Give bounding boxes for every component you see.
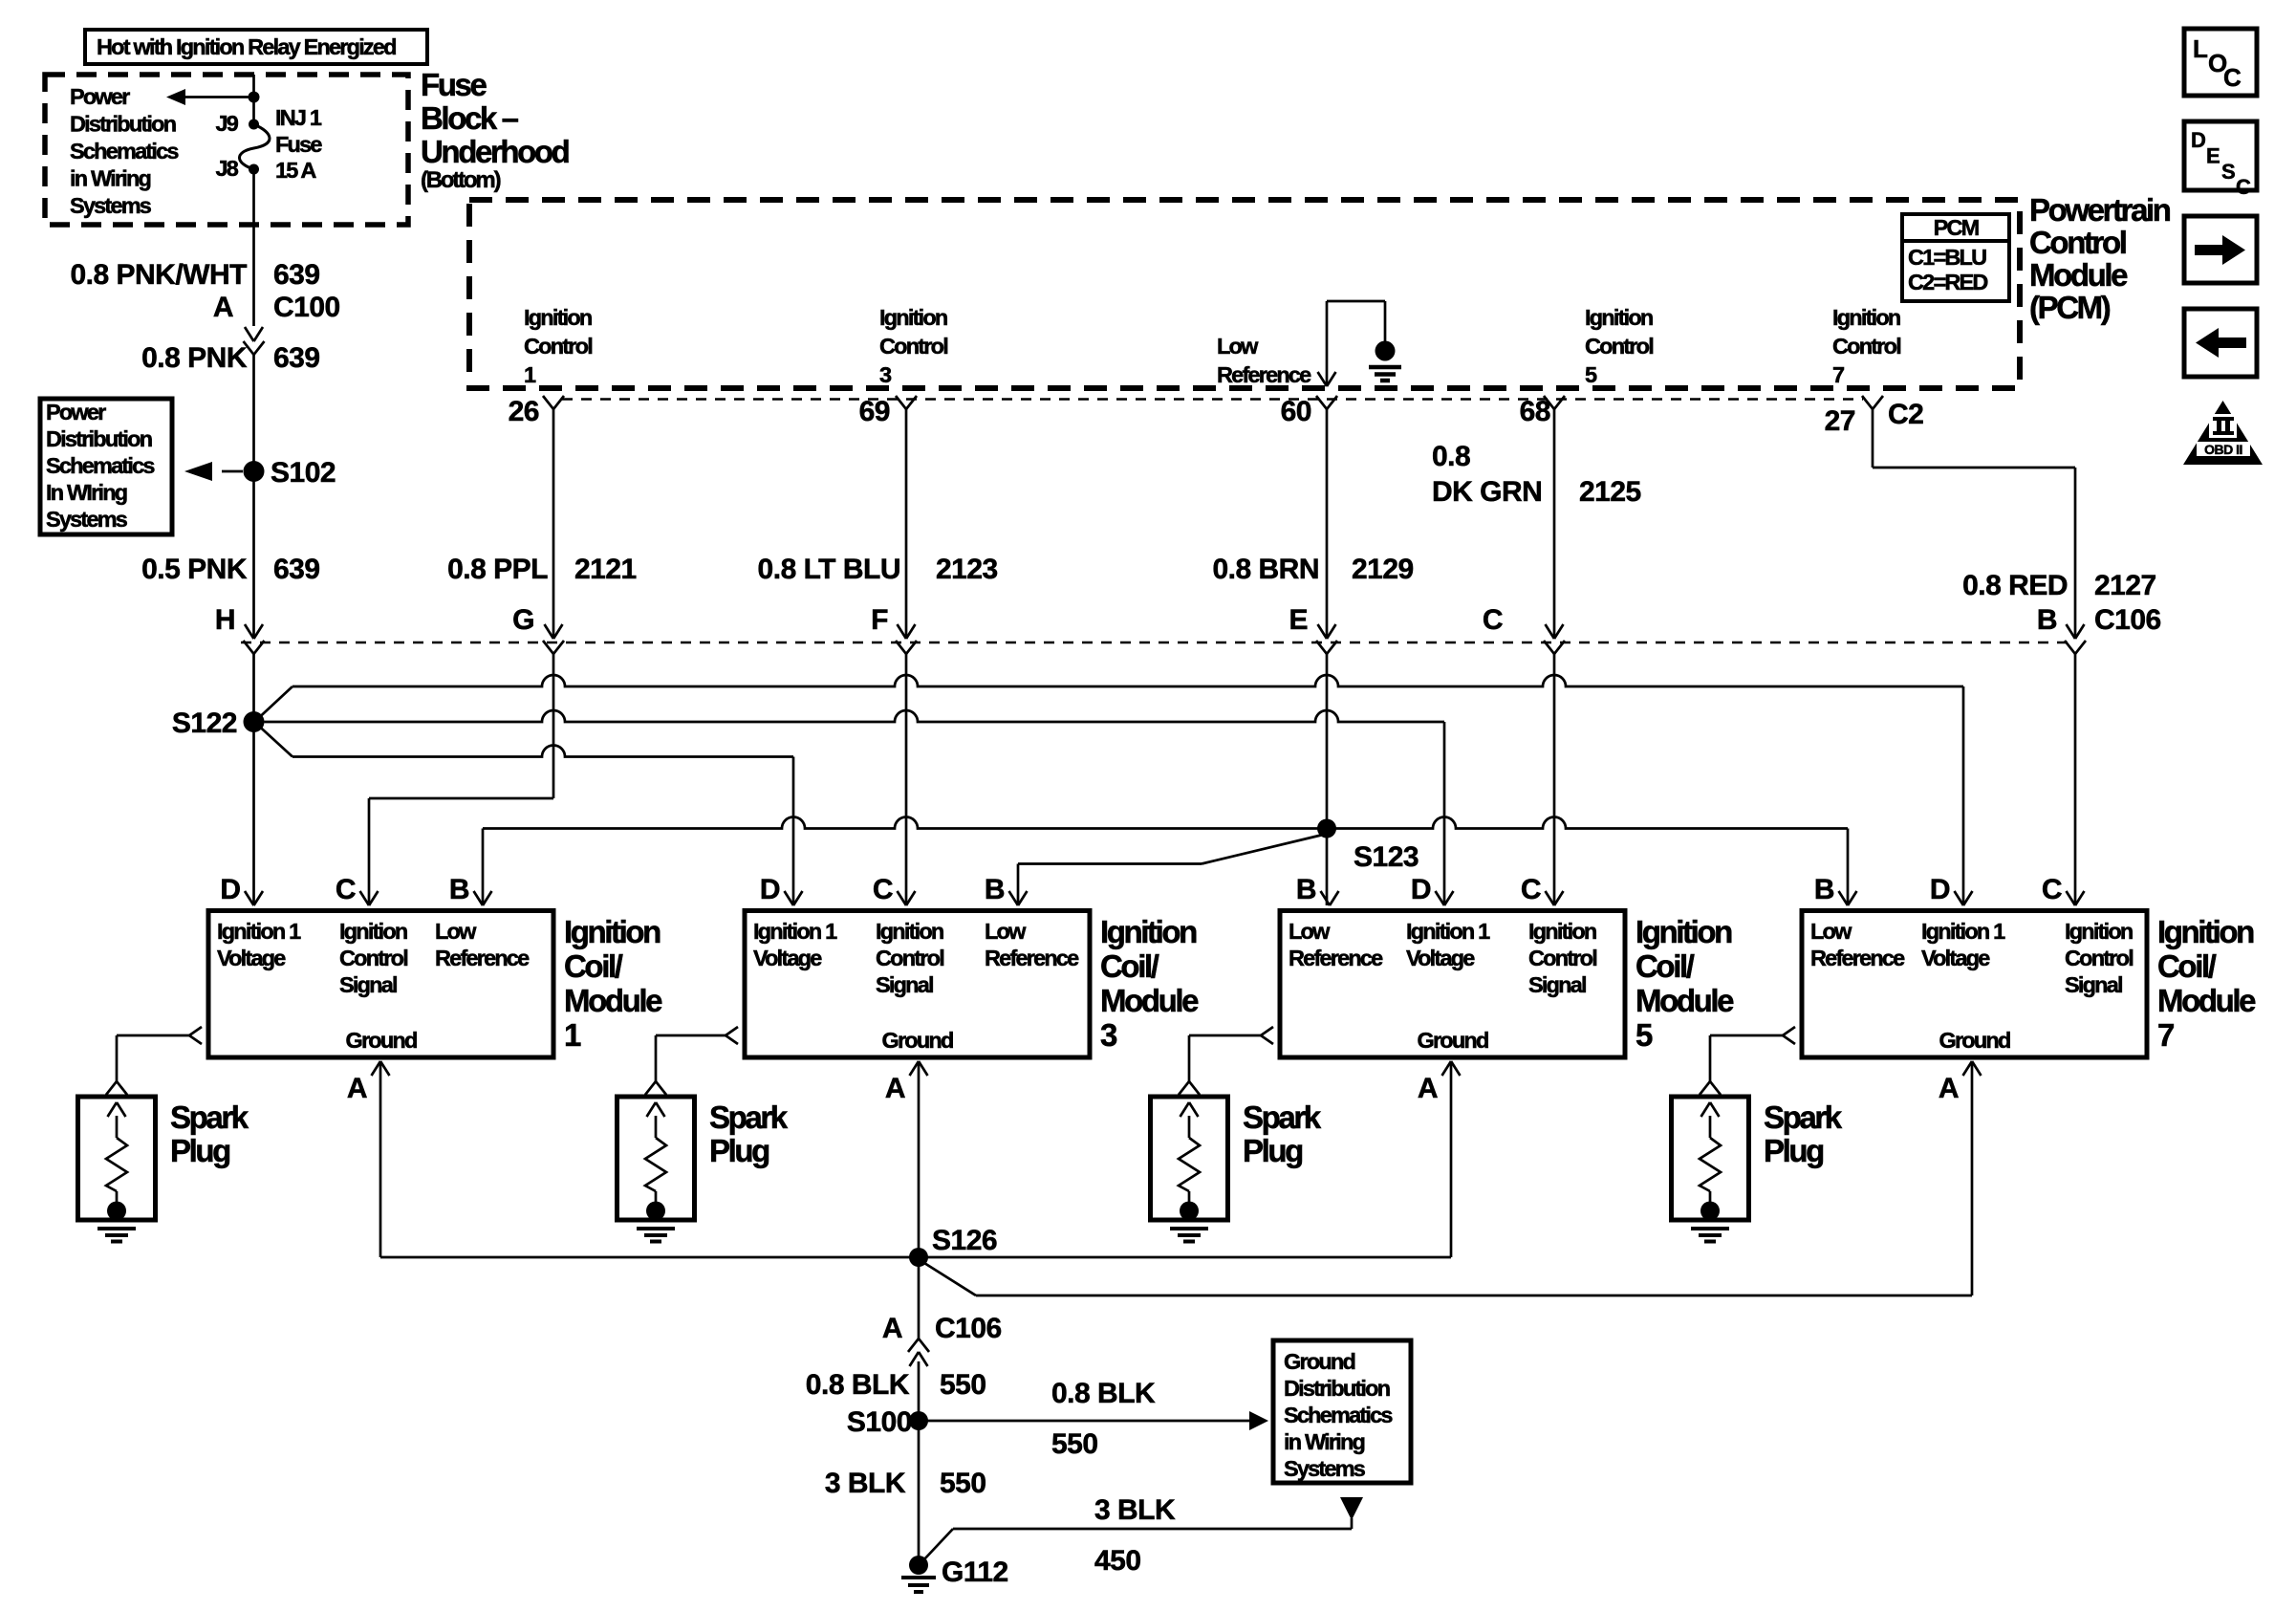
ignition coil/module 5 — [1280, 911, 1625, 1058]
svg-text:(Bottom): (Bottom) — [421, 167, 501, 193]
connector C2 line — [562, 398, 1863, 401]
svg-text:7: 7 — [2157, 1017, 2174, 1053]
ground G112 — [909, 1556, 928, 1575]
wire: 0.5 PNK 639 to connector C106 pin H — [252, 471, 255, 639]
svg-text:C100: C100 — [273, 292, 340, 323]
svg-text:D: D — [1411, 874, 1431, 905]
svg-text:639: 639 — [273, 554, 320, 585]
svg-text:3 BLK: 3 BLK — [825, 1468, 906, 1499]
wire: S126 branch to module 7 — [924, 1263, 976, 1295]
svg-text:Voltage: Voltage — [217, 946, 286, 970]
wire: S126 to connector C106 pin A — [918, 1257, 921, 1339]
svg-text:2127: 2127 — [2094, 570, 2156, 601]
svg-text:7: 7 — [1832, 362, 1845, 387]
svg-text:A: A — [1418, 1073, 1438, 1104]
fuse F INJ 1 15 A — [239, 124, 270, 169]
wire: S122 top branch to module 7 pin D — [259, 686, 293, 718]
svg-text:Distribution: Distribution — [46, 426, 152, 451]
svg-text:Systems: Systems — [46, 507, 128, 532]
svg-text:C: C — [1483, 604, 1503, 636]
svg-text:G: G — [512, 604, 534, 636]
svg-text:Ground: Ground — [1417, 1028, 1487, 1053]
svg-text:Ignition 1: Ignition 1 — [1406, 919, 1490, 944]
svg-text:C: C — [336, 874, 356, 905]
svg-text:Control: Control — [1832, 334, 1900, 359]
svg-text:69: 69 — [859, 396, 890, 427]
svg-text:Control: Control — [1528, 946, 1596, 970]
svg-text:A: A — [213, 292, 233, 323]
svg-text:in Wiring: in Wiring — [70, 166, 151, 191]
svg-text:Ignition 1: Ignition 1 — [217, 919, 301, 944]
svg-text:Ground: Ground — [345, 1028, 416, 1053]
ignition coil/module 1 — [208, 911, 553, 1058]
svg-text:in Wiring: in Wiring — [1284, 1429, 1365, 1454]
svg-text:5: 5 — [1635, 1017, 1653, 1053]
svg-text:Ignition: Ignition — [564, 914, 661, 949]
splice S122 — [244, 711, 265, 732]
wire: ground distribution arrow to 3 BLK 450 — [1340, 1497, 1363, 1520]
svg-text:Ignition: Ignition — [1832, 305, 1900, 330]
svg-text:B: B — [985, 874, 1005, 905]
svg-text:Module: Module — [1635, 983, 1734, 1018]
wire: ignition control 5 from C106 C to module 5 pin C — [1553, 654, 1556, 905]
svg-text:3: 3 — [879, 362, 892, 387]
svg-text:Coil/: Coil/ — [1100, 948, 1159, 984]
svg-text:B: B — [2037, 604, 2057, 636]
svg-text:S126: S126 — [932, 1225, 997, 1256]
svg-text:S123: S123 — [1354, 841, 1419, 873]
svg-text:0.8: 0.8 — [1432, 441, 1470, 472]
svg-text:Fuse: Fuse — [275, 132, 322, 157]
svg-text:Power: Power — [46, 400, 106, 425]
svg-text:2123: 2123 — [936, 554, 998, 585]
splice S123 — [1317, 819, 1336, 838]
svg-text:E: E — [2206, 144, 2220, 168]
wire: ignition control 7, 0.8 RED 2127, pin 27 jog to C106 B — [1872, 409, 1874, 468]
svg-text:Plug: Plug — [1243, 1133, 1302, 1168]
PCM dashed box — [469, 200, 2020, 388]
svg-text:Systems: Systems — [70, 193, 152, 218]
svg-text:Systems: Systems — [1284, 1456, 1366, 1481]
wire: arrow to power distribution schematics — [185, 96, 254, 98]
svg-text:Hot with Ignition Relay Energi: Hot with Ignition Relay Energized — [97, 34, 396, 59]
svg-text:Voltage: Voltage — [1921, 946, 1990, 970]
svg-text:Module: Module — [2029, 257, 2128, 293]
svg-text:Reference: Reference — [435, 946, 530, 970]
wire: 0.8 PNK 639 to S102 — [252, 355, 255, 471]
label box: Hot with Ignition Relay Energized — [85, 30, 427, 64]
svg-text:Plug: Plug — [709, 1133, 769, 1168]
svg-text:Signal: Signal — [339, 972, 397, 997]
svg-text:Voltage: Voltage — [1406, 946, 1475, 970]
svg-text:Coil/: Coil/ — [1635, 948, 1695, 984]
splice S126 — [909, 1248, 928, 1267]
svg-text:C106: C106 — [2094, 604, 2161, 636]
svg-text:Control: Control — [2029, 225, 2126, 260]
svg-text:0.8 BRN: 0.8 BRN — [1212, 554, 1319, 585]
svg-text:Low: Low — [1217, 334, 1259, 359]
svg-text:550: 550 — [1051, 1428, 1098, 1460]
wire: low reference, 0.8 BRN 2129, pin 60 to C106 E — [1326, 409, 1329, 639]
svg-text:Module: Module — [1100, 983, 1199, 1018]
svg-text:Reference: Reference — [1289, 946, 1383, 970]
spark plug 5 ground — [1180, 1202, 1199, 1221]
svg-text:550: 550 — [940, 1369, 986, 1401]
svg-text:Powertrain: Powertrain — [2029, 192, 2171, 228]
svg-text:Low: Low — [985, 919, 1027, 944]
svg-text:1: 1 — [564, 1017, 581, 1053]
svg-text:Schematics: Schematics — [70, 139, 179, 163]
svg-text:Power: Power — [70, 84, 130, 109]
svg-text:Ignition: Ignition — [1585, 305, 1653, 330]
svg-text:Coil/: Coil/ — [564, 948, 623, 984]
svg-text:0.8 PPL: 0.8 PPL — [447, 554, 548, 585]
svg-text:Underhood: Underhood — [421, 134, 569, 169]
wire: ignition control 7 from C106 B to module 7 pin C — [2074, 654, 2077, 905]
svg-text:C: C — [2042, 874, 2062, 905]
svg-text:639: 639 — [273, 342, 320, 374]
svg-text:2125: 2125 — [1579, 476, 1641, 508]
svg-text:Module: Module — [2157, 983, 2256, 1018]
wire: ignition control 1, 0.8 PPL 2121, pin 26 to C106 G — [552, 409, 555, 639]
splice S102 — [244, 461, 265, 482]
svg-text:S100: S100 — [847, 1406, 912, 1438]
spark plug 3 ground — [646, 1202, 665, 1221]
wire: S122 middle branch to module 5 pin D — [265, 710, 1445, 722]
node: power distribution tap junction — [249, 92, 260, 103]
wire: ignition control 3 from C106 F to module 3 pin C — [905, 654, 908, 905]
wire: module 5 to spark plug — [1261, 1027, 1273, 1044]
svg-text:B: B — [449, 874, 469, 905]
wire: S122 bottom branch to module 3 pin D — [259, 726, 293, 757]
svg-text:A: A — [882, 1313, 902, 1344]
svg-text:Distribution: Distribution — [1284, 1376, 1390, 1401]
svg-text:DK GRN: DK GRN — [1432, 476, 1542, 508]
svg-text:C: C — [873, 874, 893, 905]
svg-text:0.8 BLK: 0.8 BLK — [806, 1369, 910, 1401]
svg-text:Plug: Plug — [1764, 1133, 1823, 1168]
svg-text:Block –: Block – — [421, 100, 519, 136]
svg-text:3 BLK: 3 BLK — [1094, 1494, 1176, 1526]
svg-text:2121: 2121 — [574, 554, 637, 585]
wire: 3 BLK 550 S100 to G112 — [918, 1421, 921, 1565]
icon: arrow left — [2184, 309, 2257, 377]
svg-text:Voltage: Voltage — [753, 946, 822, 970]
svg-text:0.8 RED: 0.8 RED — [1962, 570, 2068, 601]
svg-text:Reference: Reference — [985, 946, 1079, 970]
wire: 0.8 BLK 550 to S100 — [918, 1361, 921, 1421]
svg-text:5: 5 — [1585, 362, 1597, 387]
svg-text:Ignition: Ignition — [2065, 919, 2133, 944]
svg-text:Control: Control — [524, 334, 592, 359]
spark plug 5 — [1151, 1097, 1228, 1220]
spark plug 1 — [78, 1097, 156, 1220]
icon: OBD II triangle — [2183, 401, 2263, 465]
svg-text:Ground: Ground — [1939, 1028, 2009, 1053]
svg-text:F: F — [871, 604, 888, 636]
svg-text:Ground: Ground — [881, 1028, 952, 1053]
spark plug 7 — [1672, 1097, 1749, 1220]
svg-text:60: 60 — [1281, 396, 1311, 427]
icon: arrow right — [2184, 216, 2257, 283]
svg-text:G112: G112 — [942, 1557, 1008, 1588]
svg-text:D: D — [2191, 128, 2205, 152]
wire: arrow from S102 to power distribution note — [222, 470, 243, 473]
svg-text:550: 550 — [940, 1468, 986, 1499]
svg-text:0.8 LT BLU: 0.8 LT BLU — [758, 554, 900, 585]
wire: ignition control 3, 0.8 LT BLU 2123, pin 69 to C106 F — [905, 409, 908, 639]
svg-text:Plug: Plug — [170, 1133, 229, 1168]
svg-text:(PCM): (PCM) — [2029, 290, 2111, 325]
svg-text:C: C — [1521, 874, 1541, 905]
spark plug 1 ground — [107, 1202, 126, 1221]
ground: PCM internal — [1375, 341, 1396, 361]
svg-text:Ignition 1: Ignition 1 — [1921, 919, 2005, 944]
svg-text:Ignition: Ignition — [1635, 914, 1732, 949]
svg-text:Ignition: Ignition — [1528, 919, 1596, 944]
svg-text:Control: Control — [339, 946, 407, 970]
svg-text:3: 3 — [1100, 1017, 1117, 1053]
svg-text:S: S — [2221, 160, 2235, 184]
icon: DESC — [2184, 121, 2257, 190]
svg-text:0.8 PNK/WHT: 0.8 PNK/WHT — [70, 259, 247, 291]
svg-text:C: C — [2223, 63, 2242, 92]
svg-text:0.8 BLK: 0.8 BLK — [1051, 1378, 1156, 1409]
wire: S126 ground bus — [380, 1256, 1451, 1259]
svg-text:D: D — [1930, 874, 1950, 905]
svg-text:Ignition: Ignition — [879, 305, 947, 330]
svg-text:Module: Module — [564, 983, 662, 1018]
svg-text:A: A — [1939, 1073, 1959, 1104]
wire: PCM internal low reference to ground — [1327, 300, 1385, 303]
fuse block underhood dashed box — [45, 75, 408, 225]
svg-text:450: 450 — [1094, 1545, 1141, 1577]
svg-text:J8: J8 — [215, 156, 238, 181]
svg-text:Coil/: Coil/ — [2157, 948, 2217, 984]
svg-text:1: 1 — [524, 362, 536, 387]
wire: ignition control 5, 0.8 DK GRN 2125, pin 68 to C106 C — [1553, 409, 1556, 639]
svg-text:Distribution: Distribution — [70, 112, 176, 137]
svg-text:Spark: Spark — [1243, 1099, 1322, 1135]
wire: low reference bus module1 B to module7 B — [482, 829, 485, 906]
wire: low reference arrow into pin 60 — [1326, 301, 1329, 386]
icon: LOC — [2184, 29, 2257, 96]
note box: Ground Distribution Schematics in Wiring Systems — [1273, 1340, 1411, 1483]
svg-text:Signal: Signal — [2065, 972, 2122, 997]
spark plug 7 ground — [1700, 1202, 1720, 1221]
svg-text:Spark: Spark — [1764, 1099, 1843, 1135]
svg-text:Control: Control — [876, 946, 943, 970]
wire: module 3 to spark plug — [726, 1027, 738, 1044]
svg-text:Ignition: Ignition — [2157, 914, 2254, 949]
svg-text:Reference: Reference — [1217, 362, 1311, 387]
svg-text:68: 68 — [1520, 396, 1550, 427]
svg-text:Schematics: Schematics — [1284, 1403, 1393, 1427]
svg-text:Low: Low — [435, 919, 477, 944]
svg-text:Ignition 1: Ignition 1 — [753, 919, 837, 944]
connector C106 dashed line — [241, 642, 2070, 644]
svg-text:OBD II: OBD II — [2204, 442, 2242, 457]
note box: Power Distribution Schematics In Wiring Systems — [40, 399, 172, 534]
svg-text:S122: S122 — [172, 708, 237, 739]
svg-text:D: D — [220, 874, 240, 905]
svg-text:0.5 PNK: 0.5 PNK — [141, 554, 248, 585]
svg-text:Ignition: Ignition — [339, 919, 407, 944]
svg-text:S102: S102 — [271, 457, 336, 489]
wire: fuse output 0.8 PNK/WHT 639 — [252, 169, 255, 326]
svg-text:Fuse: Fuse — [421, 67, 487, 102]
wire: S100 0.8 BLK 550 to ground distribution — [919, 1420, 1249, 1423]
wire: pnk feed C106 H down to module 1 pin D — [252, 654, 255, 905]
wire: ignition feed into fuse block — [252, 75, 255, 124]
svg-text:A: A — [885, 1073, 905, 1104]
svg-text:Signal: Signal — [876, 972, 933, 997]
splice S100 — [909, 1411, 928, 1430]
svg-text:Reference: Reference — [1810, 946, 1905, 970]
svg-text:0.8 PNK: 0.8 PNK — [141, 342, 248, 374]
svg-text:C: C — [2236, 175, 2251, 199]
svg-text:B: B — [1814, 874, 1834, 905]
svg-text:Low: Low — [1289, 919, 1331, 944]
svg-text:L: L — [2193, 34, 2208, 63]
spark plug 3 — [617, 1097, 695, 1220]
svg-text:Ignition: Ignition — [876, 919, 943, 944]
wire: S123 branch to module 3 pin B — [1202, 836, 1321, 864]
wire: module 1 to spark plug — [189, 1027, 202, 1044]
ignition coil/module 7 — [1802, 911, 2147, 1058]
svg-text:Ground: Ground — [1284, 1349, 1354, 1374]
svg-text:PCM: PCM — [1934, 215, 1979, 240]
svg-text:INJ 1: INJ 1 — [275, 105, 322, 130]
wire: low reference from C106 E to S123 and module 5 pin B — [1326, 654, 1329, 905]
wire: ignition control 1 from C106 G to module 1 pin C — [552, 654, 555, 798]
svg-text:Spark: Spark — [170, 1099, 249, 1135]
svg-text:C2: C2 — [1888, 399, 1923, 430]
svg-text:Control: Control — [2065, 946, 2133, 970]
svg-text:C2=RED: C2=RED — [1908, 270, 1987, 294]
svg-text:Low: Low — [1810, 919, 1852, 944]
PCM id box: PCM C1=BLU C2=RED — [1902, 214, 2009, 301]
svg-text:639: 639 — [273, 259, 320, 291]
svg-text:Ignition: Ignition — [524, 305, 592, 330]
svg-text:A: A — [347, 1073, 367, 1104]
svg-text:J9: J9 — [215, 111, 238, 136]
svg-text:H: H — [215, 604, 235, 636]
svg-text:C1=BLU: C1=BLU — [1908, 245, 1986, 270]
ignition coil/module 3 — [745, 911, 1090, 1058]
wire: 3 BLK 450 from G112 — [923, 1529, 953, 1560]
node J8 — [249, 164, 259, 175]
svg-text:Control: Control — [1585, 334, 1653, 359]
svg-text:Spark: Spark — [709, 1099, 789, 1135]
node J9 — [249, 120, 259, 130]
svg-text:Control: Control — [879, 334, 947, 359]
svg-text:2129: 2129 — [1352, 554, 1414, 585]
svg-text:In WIring: In WIring — [46, 480, 127, 505]
svg-text:15 A: 15 A — [275, 158, 316, 183]
svg-text:D: D — [760, 874, 780, 905]
svg-text:Ignition: Ignition — [1100, 914, 1197, 949]
svg-text:E: E — [1289, 604, 1308, 636]
svg-text:26: 26 — [509, 396, 539, 427]
svg-text:Signal: Signal — [1528, 972, 1586, 997]
wire: module 7 to spark plug — [1783, 1027, 1795, 1044]
svg-text:C106: C106 — [935, 1313, 1002, 1344]
svg-text:B: B — [1296, 874, 1316, 905]
svg-text:Schematics: Schematics — [46, 453, 155, 478]
svg-text:27: 27 — [1825, 405, 1855, 437]
